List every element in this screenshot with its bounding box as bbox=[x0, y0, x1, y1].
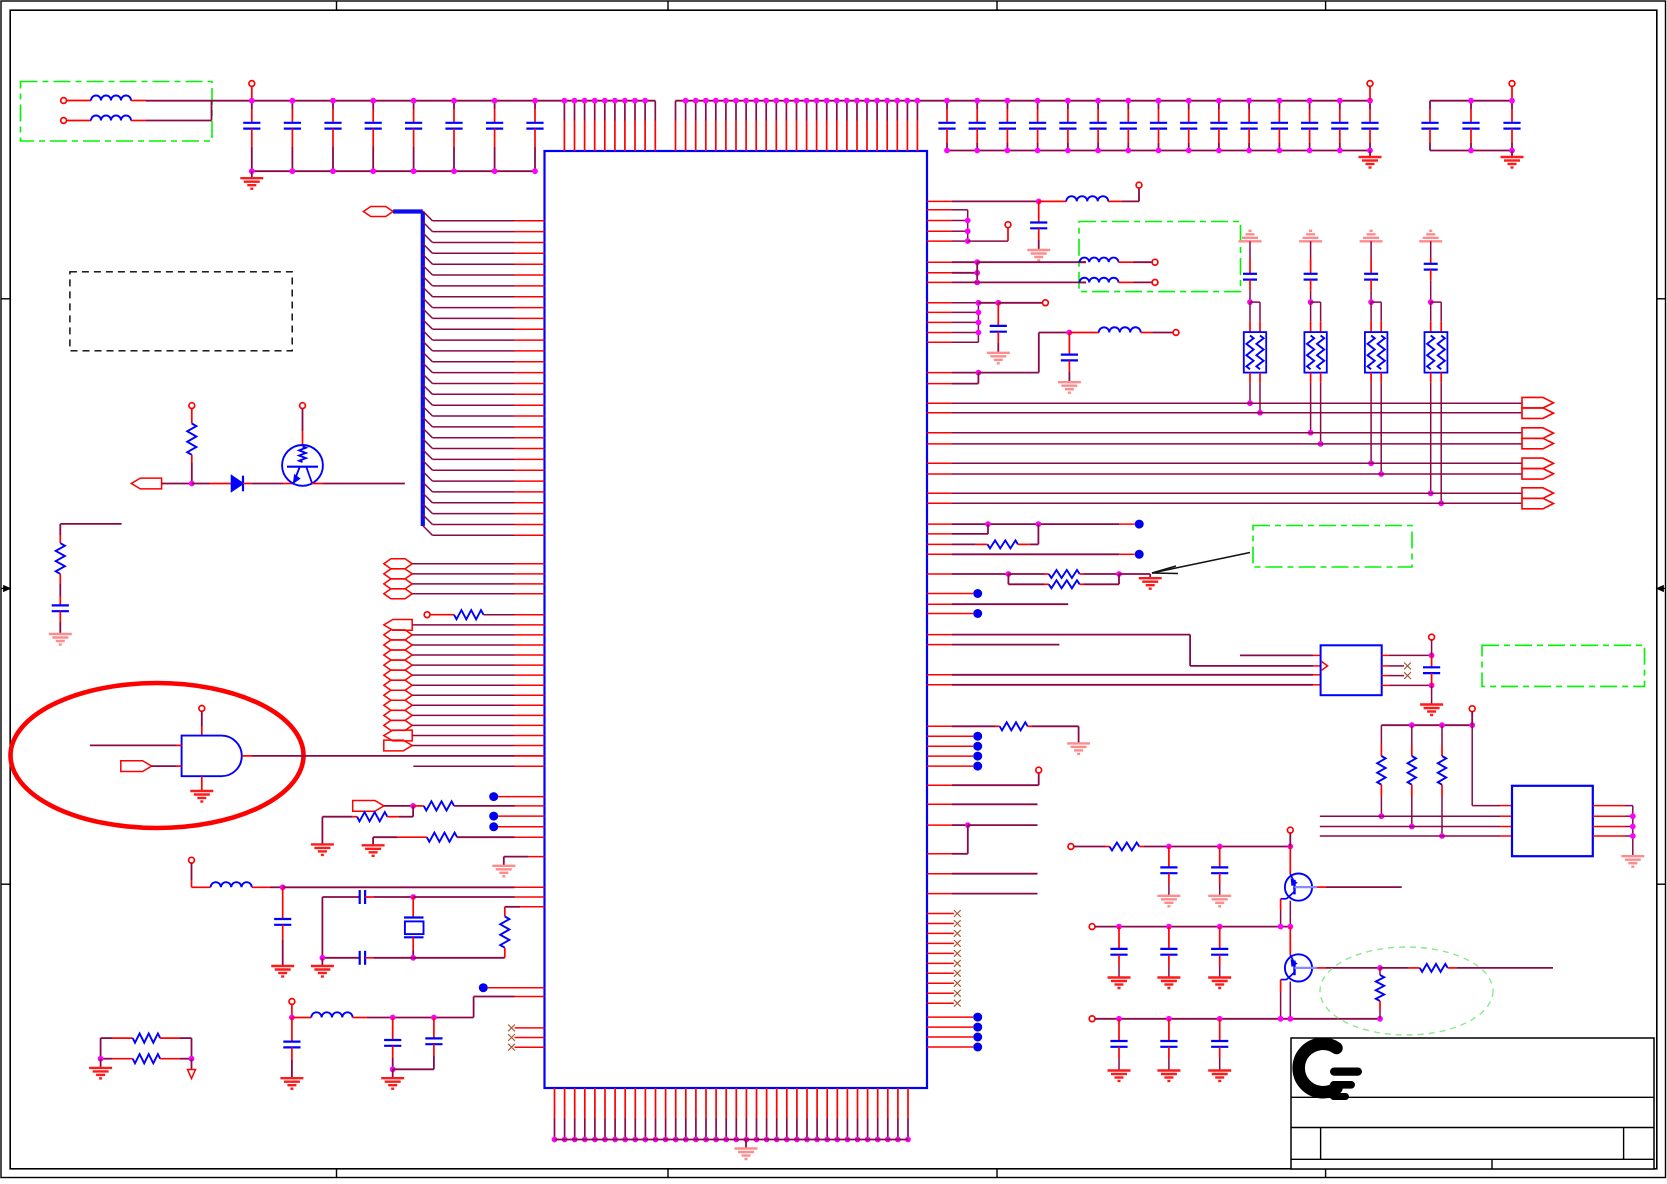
Rp2 wire down bbox=[1411, 796, 1413, 827]
resistor Rp3 bbox=[1441, 725, 1443, 745]
wire osc to IC bbox=[283, 886, 515, 888]
row804 wire bbox=[927, 803, 952, 805]
connector G2-9 bbox=[384, 700, 412, 710]
green dash-dot box 3 bbox=[1253, 526, 1412, 568]
capacitor Cd-1119 bbox=[1118, 1019, 1120, 1041]
wire node to diode bbox=[192, 483, 210, 485]
capacitor C1f bbox=[453, 101, 455, 109]
logo C swoosh bbox=[1299, 1044, 1337, 1092]
row825/853 jog pair bbox=[927, 824, 952, 826]
power symbol (inverted gnd) col1 bbox=[1249, 230, 1252, 232]
resistor R6 bbox=[373, 836, 397, 838]
AND input 1 wire bbox=[90, 744, 176, 746]
resistor R13 (vertical in ellipse) bbox=[1379, 968, 1381, 975]
column 4 lower wires bbox=[1430, 373, 1432, 383]
ground C13 bbox=[1058, 381, 1081, 383]
connector G2-1 bbox=[384, 620, 412, 631]
row1 wire bbox=[927, 200, 952, 202]
capacitor C1c bbox=[332, 101, 334, 109]
wire L2 out bbox=[146, 120, 212, 122]
capacitor Cd-1220 bbox=[1219, 1019, 1221, 1041]
capacitor Cb-1220 bbox=[1219, 847, 1221, 868]
capacitor C8 bbox=[291, 1018, 293, 1042]
nc dot row E bbox=[479, 983, 488, 992]
capacitor Ct1 bbox=[1243, 273, 1257, 275]
row534 wire bbox=[927, 533, 952, 535]
capacitor Cd-1169 bbox=[1168, 1019, 1170, 1041]
row644 wire bbox=[927, 644, 952, 646]
border zone ticks left bbox=[1, 298, 10, 300]
capacitor C2d bbox=[1037, 101, 1039, 109]
power symbol (inverted gnd) col4 bbox=[1429, 230, 1432, 232]
ground R6 bbox=[372, 837, 374, 845]
group4 pins bbox=[927, 209, 952, 211]
ground pin row bbox=[528, 856, 545, 858]
terminal group4 bbox=[968, 240, 1008, 242]
terminal VCC1 bbox=[249, 81, 255, 87]
column 4 split wires bbox=[1431, 301, 1442, 303]
green dashed ellipse bbox=[1320, 947, 1493, 1035]
capacitor C2k bbox=[1248, 101, 1250, 109]
terminal P1 bbox=[189, 403, 195, 409]
column 2 split wires bbox=[1311, 301, 1321, 303]
ground C11 bbox=[1027, 249, 1050, 251]
transistor Q1 (digital) bbox=[282, 445, 323, 486]
row613 nc bbox=[927, 613, 952, 615]
row893 wire bbox=[927, 893, 952, 895]
resistor R3 bbox=[454, 610, 484, 619]
row655 stub wire bbox=[1240, 654, 1313, 656]
wire L1 out bbox=[146, 100, 212, 102]
inductor L7 bbox=[1080, 281, 1087, 283]
row1 RC bus bbox=[1068, 844, 1074, 850]
node col2 bbox=[1308, 299, 1314, 305]
capacitor C1a bbox=[251, 101, 253, 109]
wire LC to IC bbox=[474, 996, 515, 998]
inductor L4 bbox=[292, 1017, 311, 1019]
nc dots rows 736-766 bbox=[927, 735, 952, 737]
green dash-dot box 2 bbox=[1079, 222, 1241, 292]
U4 input wires bbox=[1320, 815, 1500, 817]
capacitor C9 bbox=[392, 1018, 394, 1041]
dashed annotation box bbox=[70, 272, 292, 351]
crystal Y1 bbox=[412, 897, 414, 918]
ground C14 bbox=[1431, 685, 1433, 704]
capacitor C11 bbox=[1038, 201, 1040, 222]
dual resistor pack RN3 bbox=[1365, 332, 1388, 373]
power symbol (inverted gnd) col3 bbox=[1370, 230, 1373, 232]
group3 vertical bbox=[976, 262, 978, 282]
pair arrow connector 2 bbox=[1522, 428, 1554, 439]
column 2 upper wire bbox=[1310, 241, 1312, 258]
IC top pin cluster A bbox=[563, 101, 565, 121]
row2 RC bus bbox=[1089, 924, 1095, 930]
logo bars bbox=[1330, 1068, 1362, 1076]
connector hexagon H1b bbox=[384, 569, 412, 579]
node col1 bbox=[1247, 299, 1253, 305]
nc x-pins right bbox=[927, 913, 954, 915]
IC bottom pins bbox=[554, 1088, 556, 1118]
cap bank2 bottom bus bbox=[947, 150, 1370, 152]
terminal L7 bbox=[1152, 280, 1158, 286]
border mid arrow left bbox=[1, 588, 6, 590]
node xtal top bbox=[410, 894, 416, 900]
AND output wire to IC bbox=[242, 755, 252, 757]
Q2 base wire bbox=[1295, 886, 1318, 888]
capacitor C4 bbox=[52, 604, 69, 606]
bus fan wires to IC left bbox=[423, 211, 433, 221]
diode D1 bbox=[232, 476, 244, 492]
column 1 split wires bbox=[1250, 301, 1260, 303]
inductor L2 bbox=[67, 120, 92, 122]
Q2 emitter wires bbox=[1281, 898, 1287, 900]
row604 wire bbox=[927, 603, 952, 605]
transistor Q3 bbox=[1289, 927, 1291, 955]
terminal LC bbox=[289, 999, 295, 1005]
connector G2-6 bbox=[384, 670, 412, 680]
column 2 lower wires bbox=[1310, 373, 1312, 383]
dual resistor pack RN4 bbox=[1425, 332, 1448, 373]
row524 wire to nc bbox=[927, 523, 952, 525]
nc x-pin left 1 bbox=[515, 1027, 545, 1029]
Q3 base wire bbox=[1295, 967, 1318, 969]
ground IC bottom bbox=[745, 1140, 747, 1149]
border mid arrow right bbox=[1661, 588, 1666, 590]
resistor R5 bbox=[322, 816, 352, 818]
group4 vertical bbox=[967, 210, 969, 241]
capacitor C7 (series) bbox=[359, 951, 361, 965]
row554 wire to nc bbox=[927, 553, 952, 555]
nc x-pin left 2 bbox=[515, 1037, 545, 1039]
U3 right pins bbox=[1382, 654, 1389, 656]
inductor L6 bbox=[1080, 261, 1087, 263]
capacitor C2b bbox=[976, 101, 978, 109]
column 4 upper wire bbox=[1430, 241, 1432, 258]
border zone ticks top bbox=[336, 1, 338, 10]
pair arrow connector 3 bbox=[1522, 458, 1554, 469]
inductor L1 bbox=[67, 100, 92, 102]
AND ground bbox=[201, 776, 203, 790]
connector flag P5 bbox=[353, 801, 384, 812]
green dash-dot box 4 bbox=[1482, 645, 1645, 686]
resistor Rp1 bbox=[1380, 725, 1382, 745]
resistor R9 bbox=[101, 1058, 112, 1060]
row873 wire bbox=[927, 873, 952, 875]
terminal P3 bbox=[300, 403, 306, 409]
R8R9 left vertical + ground bbox=[100, 1038, 102, 1059]
terminal AND vcc bbox=[199, 706, 205, 712]
capacitor C3a bbox=[1429, 101, 1431, 109]
capacitor C1d bbox=[372, 101, 374, 109]
ground R5 bbox=[321, 817, 323, 844]
wire P2 to node bbox=[162, 483, 192, 485]
resistor R10 bbox=[927, 543, 952, 545]
inductor L5 bbox=[1039, 200, 1067, 202]
connector hexagon H1c bbox=[384, 579, 412, 589]
terminal VCC3 bbox=[1509, 81, 1515, 87]
row3 RC bus bbox=[1089, 1016, 1095, 1022]
U4 right vertical bbox=[1632, 806, 1634, 856]
capacitor C2c bbox=[1006, 101, 1008, 109]
pullup bus bbox=[1381, 724, 1472, 726]
nc x-pin left 3 bbox=[515, 1046, 545, 1048]
ground C8 bbox=[280, 1077, 303, 1079]
inductor L3 bbox=[211, 882, 252, 887]
title block dividers bbox=[1320, 1128, 1322, 1160]
capacitor C2l bbox=[1278, 101, 1280, 109]
terminal L6 bbox=[1152, 259, 1158, 265]
resistor R8 bbox=[101, 1037, 112, 1039]
node row1 bbox=[1036, 199, 1042, 205]
resistor R4 bbox=[413, 805, 424, 807]
AND input 2 connector flag bbox=[121, 761, 152, 772]
ground U4 bbox=[1621, 855, 1644, 857]
nc dot row C bbox=[489, 812, 498, 821]
terminal group5 bbox=[1043, 300, 1049, 306]
node C9 gnd bbox=[390, 1066, 396, 1072]
capacitor C3b bbox=[1470, 101, 1472, 109]
capacitor C1e bbox=[413, 101, 415, 109]
row634 wire to ADC bbox=[927, 634, 952, 636]
connector hexagon H1a bbox=[384, 559, 412, 569]
connector G2-4 bbox=[384, 650, 412, 660]
top power bus segment 2 bbox=[676, 100, 1371, 102]
ground C12 bbox=[987, 352, 1010, 354]
terminal J1b bbox=[61, 118, 67, 124]
node LC in bbox=[289, 1015, 295, 1021]
capacitor C2a bbox=[946, 101, 948, 109]
thick blue bus bbox=[393, 209, 423, 213]
IC bottom bus bbox=[555, 1139, 909, 1141]
Q3 emitter wires bbox=[1281, 979, 1287, 981]
border zone ticks bottom bbox=[336, 1169, 338, 1178]
capacitor Cc-1169 bbox=[1168, 927, 1170, 949]
ground cap bank1 bbox=[251, 171, 253, 178]
ground R2C4 bbox=[49, 633, 72, 635]
capacitor C2m bbox=[1309, 101, 1311, 109]
border zone ticks right bbox=[1657, 298, 1666, 300]
terminal L8 bbox=[1173, 330, 1179, 336]
node ferrite bbox=[1067, 330, 1073, 336]
row282 wire bbox=[927, 281, 952, 283]
capacitor C10 bbox=[433, 1018, 435, 1039]
node col4 bbox=[1428, 299, 1434, 305]
ground C5 bbox=[271, 965, 294, 967]
column 3 split wires bbox=[1371, 301, 1381, 303]
capacitor C13 bbox=[1068, 333, 1070, 355]
capacitor Ct3 bbox=[1364, 273, 1378, 275]
connector G2-11 bbox=[384, 720, 412, 730]
column 1 lower wires bbox=[1249, 373, 1251, 383]
dual resistor pack RN2 bbox=[1304, 332, 1326, 373]
wire group5 to terminal bbox=[978, 302, 998, 304]
U4 top input wire bbox=[1471, 725, 1473, 805]
IC top pin cluster B bbox=[675, 101, 677, 121]
capacitor C3c bbox=[1511, 101, 1513, 109]
row593 nc bbox=[927, 593, 952, 595]
node col3 bbox=[1368, 299, 1374, 305]
Rp1 wire down bbox=[1380, 796, 1382, 816]
annotation arrow bbox=[1152, 553, 1250, 574]
IC U1 main body bbox=[545, 151, 928, 1088]
red highlight ellipse bbox=[11, 683, 304, 828]
capacitor C2o bbox=[1369, 101, 1371, 109]
transistor Q2 bbox=[1289, 847, 1291, 875]
capacitor C2n bbox=[1339, 101, 1341, 109]
cap bank3 bottom bus bbox=[1430, 150, 1512, 152]
node Q3 net bbox=[1377, 965, 1383, 971]
AND gate U2 bbox=[182, 736, 242, 777]
ground C9C10 bbox=[392, 1069, 394, 1077]
row785 terminal jog bbox=[927, 784, 952, 786]
connector G2-12 bbox=[384, 730, 412, 741]
wire jog up bbox=[978, 372, 1038, 374]
capacitor C1g bbox=[494, 101, 496, 109]
capacitor C2g bbox=[1127, 101, 1129, 109]
column 3 lower wires bbox=[1370, 373, 1372, 383]
nc dot row D bbox=[489, 822, 498, 831]
clock chevron U3 pin2 bbox=[1322, 662, 1328, 671]
terminal U3 vcc bbox=[1429, 634, 1435, 640]
connector arrow-left P2 bbox=[131, 478, 161, 489]
U4 right pins bbox=[1593, 805, 1625, 807]
node junction bbox=[189, 481, 195, 487]
node L3 out bbox=[280, 884, 286, 890]
capacitor C12 bbox=[997, 303, 999, 326]
differential pair lines bbox=[927, 402, 952, 404]
column 3 upper wire bbox=[1370, 241, 1372, 258]
cap bank3 top bus bbox=[1430, 100, 1512, 102]
top power bus segment 1 bbox=[212, 100, 656, 102]
connector hexagon DATA bbox=[363, 207, 393, 217]
ground cap bank3 bbox=[1511, 151, 1513, 157]
pair arrow connector 1 bbox=[1522, 397, 1554, 408]
group5 pins bbox=[927, 302, 952, 304]
ground cap bank2 bbox=[1369, 151, 1371, 157]
resistor R1 bbox=[187, 424, 196, 455]
capacitor C14 bbox=[1431, 655, 1433, 667]
nc dot row A bbox=[489, 792, 498, 801]
connector hexagon H1d bbox=[384, 589, 412, 599]
capacitor Ct2 bbox=[1304, 273, 1318, 275]
capacitor C1h bbox=[534, 101, 536, 109]
connector G2-13 bbox=[384, 740, 412, 751]
connector G2-7 bbox=[384, 680, 412, 690]
group5 vertical bbox=[977, 303, 979, 343]
terminal pullups bbox=[1469, 706, 1475, 712]
capacitor C6 (series) bbox=[359, 890, 361, 904]
ground R11 bbox=[1149, 574, 1151, 578]
capacitor C2i bbox=[1188, 101, 1190, 109]
capacitor C2f bbox=[1097, 101, 1099, 109]
row726 resistor to gnd bbox=[927, 725, 952, 727]
capacitor Cb-1169 bbox=[1168, 847, 1170, 868]
IC U3 body bbox=[1321, 645, 1382, 695]
terminal J1a bbox=[61, 98, 67, 104]
capacitor C1b bbox=[291, 101, 293, 109]
title block row lines bbox=[1291, 1096, 1654, 1098]
wire stub L-corner bbox=[60, 523, 121, 525]
resistor R12 (parallel) bbox=[1007, 574, 1009, 584]
capacitor Cc-1119 bbox=[1118, 927, 1120, 949]
inductor L8 bbox=[1069, 332, 1098, 334]
terminal VCC2 bbox=[1367, 81, 1373, 87]
resistor R11 bbox=[1008, 573, 1044, 575]
cap bank1 bottom bus bbox=[252, 170, 535, 172]
terminal Q2 collector bbox=[1287, 827, 1293, 833]
xtal left vertical bbox=[321, 897, 323, 958]
row372 wire pair bbox=[927, 372, 952, 374]
wire diode to Q1 bbox=[243, 483, 252, 485]
resistor R2 bbox=[56, 543, 65, 574]
connector G2-8 bbox=[384, 690, 412, 700]
nc dots rows bottom right bbox=[927, 1016, 952, 1018]
Rp3 wire down bbox=[1441, 796, 1443, 836]
wire to IC y766 bbox=[413, 765, 514, 767]
row684 wire to U3 bbox=[927, 684, 952, 686]
xtal upper wire bbox=[322, 896, 359, 898]
power symbol (inverted gnd) col2 bbox=[1309, 230, 1312, 232]
resistor R14 (horizontal in ellipse) bbox=[1380, 967, 1408, 969]
connector G2-3 bbox=[384, 640, 412, 650]
terminal P4 bbox=[424, 612, 430, 618]
wire xtal row to IC bbox=[413, 896, 514, 898]
capacitor C2j bbox=[1218, 101, 1220, 109]
terminal row1 bbox=[1138, 188, 1140, 201]
connector G2-5 bbox=[384, 660, 412, 670]
IC U4 body bbox=[1512, 786, 1593, 856]
capacitor C5 bbox=[282, 887, 284, 919]
dual resistor pack RN1 bbox=[1244, 332, 1266, 373]
node xtal bottom bbox=[410, 955, 416, 961]
ground xtal bbox=[321, 958, 323, 966]
capacitor Ct4 bbox=[1424, 263, 1438, 265]
node P5 bbox=[410, 803, 416, 809]
capacitor Cc-1220 bbox=[1219, 927, 1221, 949]
row574 wire bbox=[927, 573, 952, 575]
capacitor C2h bbox=[1158, 101, 1160, 109]
green dash-dot box (input filter) bbox=[21, 82, 213, 142]
connector G2-10 bbox=[384, 710, 412, 720]
resistor R7 bbox=[520, 906, 545, 908]
terminal OSC1 bbox=[189, 857, 195, 863]
row272 wire bbox=[927, 272, 952, 274]
resistor Rp2 bbox=[1411, 725, 1413, 745]
wire Q1 out bbox=[312, 483, 323, 485]
R8R9 right vertical + arrow bbox=[191, 1038, 193, 1059]
pair arrow connector 4 bbox=[1522, 488, 1554, 499]
column 1 upper wire bbox=[1249, 241, 1251, 258]
xtal lower bus bbox=[322, 957, 359, 959]
row262 wire bbox=[927, 261, 952, 263]
connector G2-2 bbox=[384, 630, 412, 640]
title block frame bbox=[1291, 1038, 1654, 1169]
row674 wire to U3 bbox=[927, 674, 952, 676]
capacitor C2e bbox=[1067, 101, 1069, 109]
